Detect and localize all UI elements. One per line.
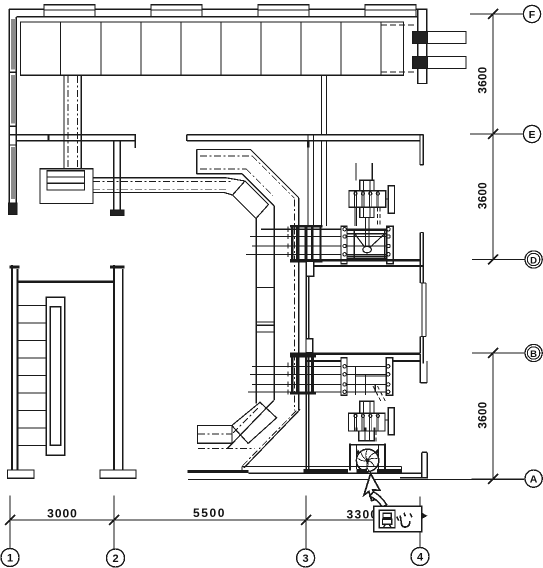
left wall end cap bbox=[8, 203, 17, 215]
svg-text:3600: 3600 bbox=[478, 182, 490, 209]
wall pier grid2 upper bbox=[114, 141, 121, 210]
duct spine middle wall bbox=[273, 206, 275, 400]
duct vertical from band bbox=[64, 75, 81, 169]
extension lines bottom bbox=[10, 496, 420, 549]
svg-text:5500: 5500 bbox=[193, 506, 226, 520]
valve assembly left plate at B bbox=[341, 358, 347, 396]
dimension line right B-A bbox=[492, 353, 494, 479]
fan blades bbox=[358, 450, 377, 471]
stairwell right column bbox=[114, 265, 123, 470]
wall right below B stub bbox=[420, 354, 427, 383]
pilaster at B bbox=[306, 339, 313, 353]
duct 45deg branch piece lower bbox=[232, 402, 277, 443]
svg-text:3000: 3000 bbox=[47, 507, 78, 521]
valve bolts B bbox=[343, 365, 390, 394]
svg-text:B: B bbox=[530, 349, 537, 360]
stairwell left wall bbox=[12, 265, 18, 470]
duct bottom dash-dot line bbox=[198, 448, 254, 450]
wall right of room D-B bbox=[420, 260, 423, 363]
stairwell top wall bbox=[18, 281, 115, 283]
duct top bend centerline dashes bbox=[246, 156, 294, 198]
tooltip marker triangle bbox=[422, 513, 428, 519]
unit right plate bottom bbox=[388, 408, 394, 435]
stair railing outer bbox=[46, 297, 64, 455]
conveyor band right end dashed lines bbox=[381, 25, 417, 72]
svg-text:3600: 3600 bbox=[478, 401, 490, 428]
osnap tooltip box bbox=[374, 506, 422, 531]
svg-text:1: 1 bbox=[7, 553, 13, 565]
valve body at D bbox=[347, 229, 387, 231]
unit top supports bbox=[356, 163, 372, 180]
grid line A bbox=[472, 478, 525, 480]
duct spine right centerline bbox=[294, 200, 296, 411]
wall left grid1 outer bbox=[8, 9, 10, 210]
cursor curved tail bbox=[370, 492, 387, 507]
wall D room top thick bbox=[290, 259, 420, 262]
svg-text:E: E bbox=[528, 129, 535, 141]
unit mid rect bottom assembly bbox=[360, 401, 374, 413]
svg-text:4: 4 bbox=[417, 552, 424, 564]
svg-text:2: 2 bbox=[112, 553, 118, 565]
wall corner bottom right L bbox=[400, 452, 428, 478]
duct bottom bend outer diagonal bbox=[244, 409, 300, 468]
window W2 in top wall bbox=[151, 5, 202, 10]
grid bubble E bbox=[523, 125, 540, 142]
dimension ticks right bbox=[488, 9, 498, 484]
pipe drop lines from wall E bbox=[308, 75, 327, 226]
fan dark gussets bbox=[357, 449, 378, 455]
window W3 in top wall bbox=[258, 5, 309, 10]
grid bubble 4 bbox=[411, 548, 429, 566]
unit top small rect (silencer inlet) bbox=[360, 180, 374, 190]
left wall window divider ticks bbox=[9, 72, 16, 145]
flange block at D bbox=[291, 226, 322, 262]
equipment dust-collector box bbox=[40, 169, 93, 204]
grid line D bbox=[472, 259, 525, 261]
svg-text:3: 3 bbox=[303, 553, 309, 565]
wall E right segment bbox=[187, 135, 424, 141]
equipment baseplate line bbox=[242, 467, 402, 473]
valve V cone bbox=[355, 234, 385, 248]
duct bottom bend inner diagonal bbox=[227, 400, 274, 449]
cursor arrow bbox=[364, 474, 380, 501]
duct spine left wall bbox=[255, 219, 257, 404]
grid bubble F bbox=[523, 5, 540, 22]
svg-text:3600: 3600 bbox=[478, 66, 490, 93]
unit body top (air handler) bbox=[349, 191, 386, 208]
grid line B bbox=[472, 352, 525, 354]
duct bottom bend dashed diagonal bbox=[242, 411, 296, 466]
duct bottom arm bbox=[198, 426, 233, 444]
top wall ticks bbox=[44, 9, 416, 17]
flange bolt teeth left B bbox=[287, 362, 289, 394]
manifold dashed diagonals bbox=[373, 386, 386, 402]
duct top bend inner diagonal bbox=[242, 174, 274, 206]
flange block at B bbox=[291, 356, 314, 394]
baseline bottom thin line to grid A bbox=[188, 478, 524, 480]
pilaster at D bbox=[306, 261, 314, 276]
duct top arm bbox=[197, 149, 251, 173]
wall column grid4 top bbox=[418, 9, 427, 83]
conveyor band dividers bbox=[61, 22, 382, 75]
valve assembly left plate at D bbox=[341, 226, 347, 264]
column footing grid2 bbox=[100, 470, 136, 478]
dimension ticks bottom bbox=[5, 515, 311, 525]
duct 45deg branch piece upper bbox=[233, 181, 269, 219]
unit body bottom bbox=[349, 413, 386, 431]
unit mid rect top bbox=[360, 207, 374, 217]
window lines in left wall bbox=[12, 19, 14, 199]
drop rect below body bbox=[359, 431, 375, 441]
fan circle bbox=[356, 449, 378, 471]
grid bubble B double bbox=[525, 344, 542, 361]
grid bubble 3 bbox=[297, 549, 315, 567]
stair railing inner bbox=[50, 307, 60, 445]
wall top outer line (grid F) bbox=[9, 8, 427, 10]
baseline wall A right bbox=[249, 472, 422, 474]
fork tine lower bbox=[413, 57, 466, 69]
grid line F bbox=[470, 13, 523, 15]
fan enclosure brackets bbox=[350, 444, 385, 471]
column footing grid1 bbox=[8, 470, 35, 478]
svg-text:A: A bbox=[530, 474, 538, 486]
valve assembly right plate at D bbox=[387, 226, 394, 264]
stair steps bbox=[18, 306, 47, 446]
wall E right corner down bbox=[420, 135, 423, 165]
wall E left segment bbox=[10, 134, 136, 136]
valve bolts bbox=[343, 228, 390, 257]
valve center circle bbox=[363, 246, 372, 252]
svg-text:D: D bbox=[530, 255, 537, 266]
manifold at B bbox=[355, 366, 386, 395]
drop lines to valve D bbox=[355, 207, 369, 246]
pipes run at grid D bbox=[246, 229, 391, 254]
valve assembly right plate at B bbox=[386, 358, 393, 396]
duct spine right wall bbox=[298, 198, 300, 410]
window W1 in top wall bbox=[44, 5, 95, 10]
grid bubble 1 bbox=[1, 549, 19, 567]
wall stub above D corner bbox=[420, 232, 423, 265]
baseplate dark segments bbox=[304, 469, 402, 474]
dimension line bottom bbox=[10, 519, 420, 521]
wall interior grid3 vertical bbox=[306, 262, 309, 472]
flange bolt teeth left bbox=[287, 227, 289, 257]
wall B room bottom thick bbox=[290, 352, 420, 355]
dimension line right F-D bbox=[492, 14, 494, 260]
pipes run at grid B bbox=[248, 366, 393, 392]
duct spine joint lines bbox=[256, 287, 274, 332]
svg-text:F: F bbox=[529, 9, 536, 21]
glyph xin (heart) bbox=[397, 513, 413, 527]
wall B room inner line bbox=[306, 360, 420, 362]
grid line E bbox=[470, 133, 523, 135]
unit right plate top bbox=[388, 186, 394, 213]
duct top bend outer diagonal bbox=[250, 149, 298, 197]
glyph yuan (circle) bbox=[379, 510, 395, 527]
window in right wall bbox=[420, 283, 426, 337]
baseline wall A left bbox=[188, 470, 249, 473]
wall pier grid2 cap bbox=[110, 210, 123, 216]
grid bubble A bbox=[525, 470, 542, 487]
wall top inner line bbox=[17, 16, 420, 18]
duct horizontal from equipment bbox=[93, 178, 226, 193]
grid bubble 2 bbox=[107, 549, 125, 567]
duct transition funnel bbox=[225, 178, 246, 195]
wall left grid1 inner bbox=[15, 17, 17, 210]
window W4 in top wall bbox=[365, 5, 416, 10]
fork tine upper bbox=[413, 32, 466, 44]
grid bubble D double bbox=[525, 251, 542, 268]
conveyor band outline bbox=[21, 22, 404, 75]
wall D room top inner line bbox=[314, 265, 423, 267]
